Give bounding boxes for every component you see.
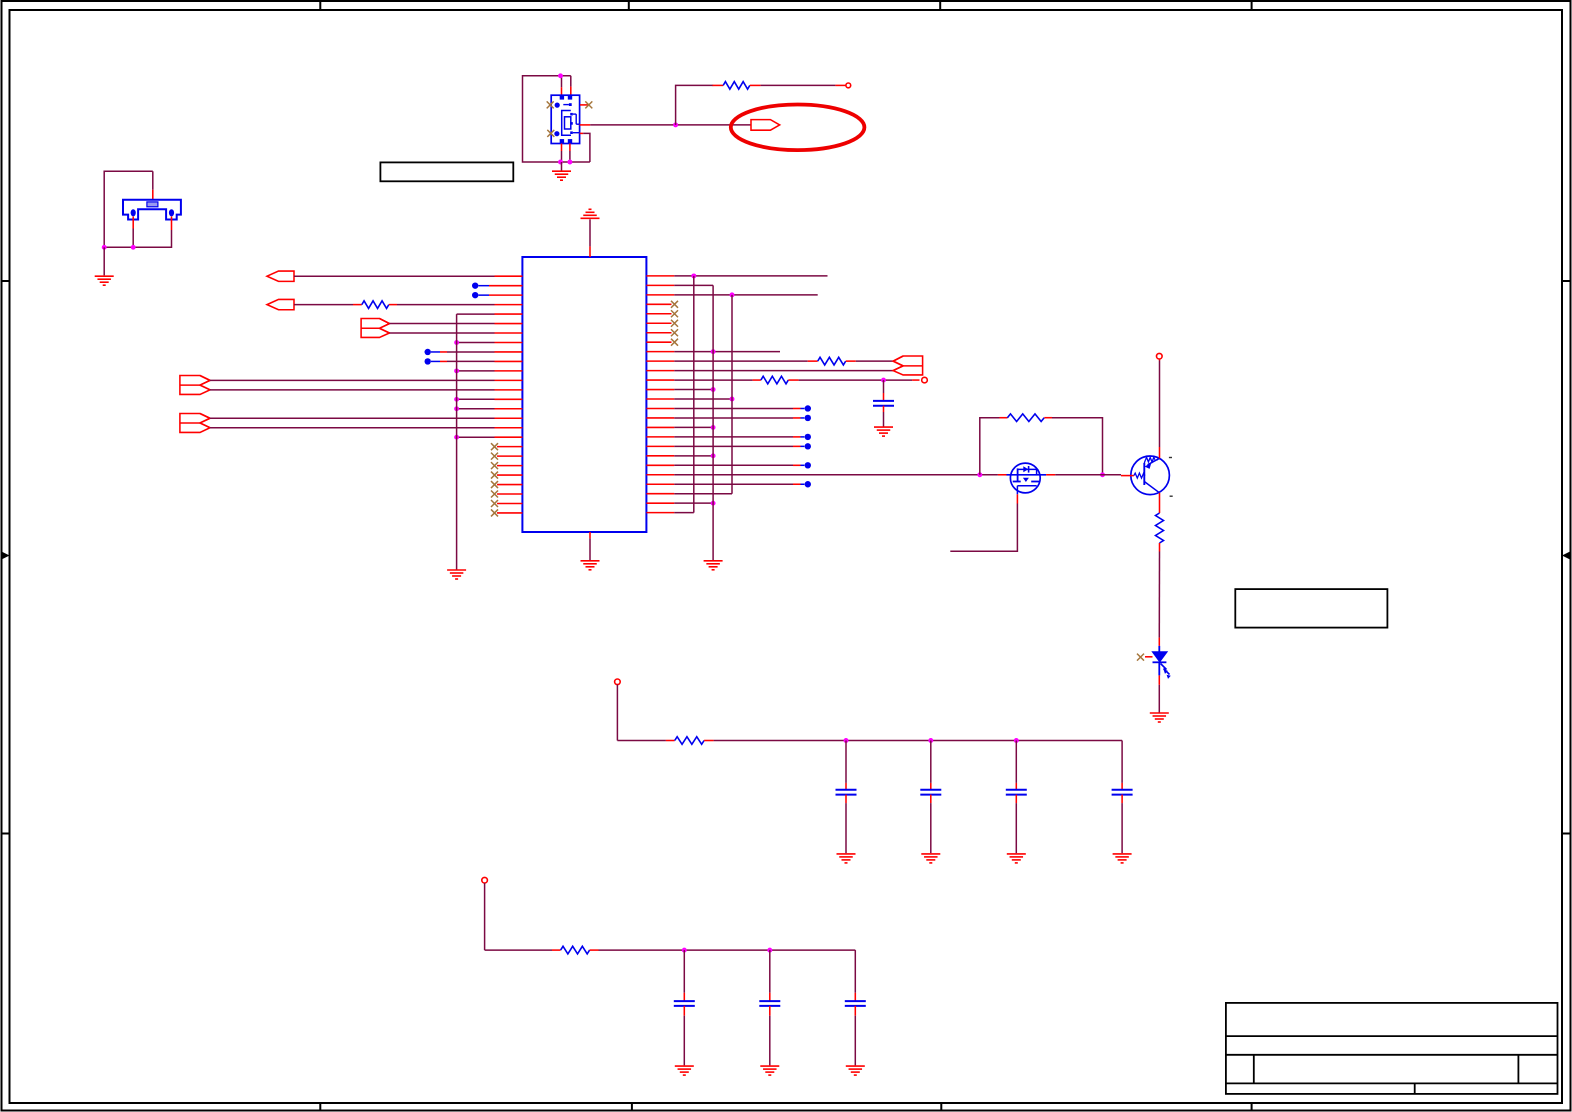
resistor R5 left stub — [999, 417, 1007, 419]
wire row4 to resistor — [294, 304, 362, 306]
oscillator Y1 — [551, 95, 580, 143]
junction Y1 bottom a — [558, 160, 563, 165]
wire Y1 pad1 bottom — [561, 144, 563, 163]
junction Y1 bottom b — [567, 160, 572, 165]
power ground above IC — [581, 209, 600, 218]
wire Y1 pad1 top — [561, 76, 563, 95]
wire cap C3 bottom — [930, 795, 932, 854]
right edge zone ticks — [1562, 281, 1571, 834]
terminal dot right 6 — [646, 481, 811, 487]
capacitor C7 — [759, 1001, 780, 1006]
wire rrow20 — [646, 455, 713, 457]
no-connect Y1 left pin2 — [547, 130, 554, 137]
wire R4 to terminal — [788, 379, 919, 381]
Y1 output pin wire — [580, 124, 751, 126]
ground C6 — [675, 1066, 694, 1075]
terminal circle Q2 collector — [1157, 353, 1163, 359]
wire cap C5 bottom — [1121, 795, 1123, 854]
wire rrow2 — [646, 284, 713, 286]
junction Q2 base node — [1100, 472, 1105, 477]
no-connect Y1 left pin1 — [547, 101, 554, 108]
junction bus row15 — [454, 406, 459, 411]
IC U1 bottom pin — [589, 532, 591, 561]
wire Y1 vdd loop — [523, 76, 590, 162]
wire cap C4 top — [1015, 741, 1017, 790]
resistor R6 — [1156, 513, 1164, 543]
wire row16 — [210, 417, 522, 419]
microphone MK1 — [123, 200, 181, 220]
junction Y1 top — [558, 73, 563, 78]
Y1 pin4 wire — [580, 133, 590, 162]
junction MK1 b — [131, 245, 136, 250]
wire rrow11 to port — [646, 370, 893, 372]
left edge zone ticks — [1, 281, 10, 834]
port P6 double right — [893, 356, 923, 375]
capacitor C4 — [1006, 790, 1027, 795]
bus3 vertical — [731, 295, 733, 494]
wire rrow3 — [646, 294, 817, 296]
wire MK1 pin3 — [104, 217, 171, 248]
wire rrow13 — [646, 389, 713, 391]
junction bus3 row14 — [730, 397, 735, 402]
IC U1 body — [522, 257, 646, 532]
wire row6 — [390, 323, 523, 325]
port P2 (row4) — [267, 299, 294, 309]
bus2 vertical — [712, 285, 714, 560]
wire rrow24 — [646, 493, 732, 495]
wire RC2 rail — [599, 949, 856, 951]
note box top — [380, 162, 513, 181]
wire R3 to port — [846, 360, 893, 362]
wire cap C6 bottom — [683, 1006, 685, 1066]
wire Q1 to Q2 — [1055, 474, 1121, 476]
wire row8 — [457, 341, 523, 343]
mosfet Q1 — [1007, 463, 1047, 494]
junction RC1 node 2 — [928, 738, 933, 743]
port P4 double (rows12-13) — [180, 376, 210, 395]
wire C1 to ground — [883, 406, 885, 427]
wire rrow26 — [646, 512, 693, 514]
wire row7 — [390, 332, 523, 334]
wire MK1 ground stem — [103, 247, 105, 275]
terminal circle RC2 — [482, 877, 488, 883]
title block — [1226, 1003, 1558, 1094]
wire row13 — [210, 389, 522, 391]
resistor R3 — [818, 357, 846, 365]
wire rrow1 — [646, 275, 827, 277]
wire row11 — [457, 370, 523, 372]
ground bus2 — [704, 561, 723, 570]
wire cap C8 bottom — [854, 1006, 856, 1066]
resistor R4 — [761, 376, 788, 384]
junction bus2 row9 — [711, 349, 716, 354]
terminal circle top — [846, 83, 851, 88]
wire Q1 source dangling — [950, 504, 1017, 552]
terminal dot row10 — [425, 358, 523, 364]
resistor R5 — [1007, 414, 1044, 422]
wire rrow17 — [646, 426, 713, 428]
junction bus1 top — [691, 273, 696, 278]
resistor R1 right stub — [750, 84, 761, 86]
junction bus2 row25 — [711, 501, 716, 506]
resistor R1 left stub — [713, 84, 724, 86]
ground C1 — [874, 427, 893, 436]
junction bus row11 — [454, 368, 459, 373]
terminal dot right 1 — [646, 405, 811, 411]
wire R1 to terminal — [761, 84, 846, 86]
transistor Q2 — [1121, 456, 1169, 495]
ground Y1 — [552, 171, 571, 180]
wire MK1 top loop — [104, 171, 153, 247]
ground MK1 — [95, 276, 114, 285]
wire RC1 rail — [714, 740, 1123, 742]
ground C5 — [1113, 854, 1132, 863]
terminal dot right 3 — [646, 434, 811, 440]
left edge center arrow — [1, 552, 10, 560]
highlight ellipse — [731, 105, 865, 151]
wire cap C5 top — [1121, 741, 1123, 790]
wire cap C7 top — [769, 950, 771, 1001]
terminal dot right 5 — [646, 462, 811, 468]
terminal dot row2 — [472, 282, 522, 288]
wire row18 — [457, 436, 523, 438]
terminal dot row3 — [472, 292, 522, 298]
note box right — [1235, 589, 1387, 628]
wire rrow14 — [646, 398, 732, 400]
Q1 drain stub right — [1046, 474, 1055, 476]
wire cap C6 top — [683, 950, 685, 1001]
ground C8 — [846, 1066, 865, 1075]
ground C3 — [921, 854, 940, 863]
junction RC1 node 3 — [1014, 738, 1019, 743]
wire rrow25 — [646, 502, 713, 504]
junction Q1 gate node — [977, 472, 982, 477]
junction bus row18 — [454, 435, 459, 440]
wire row1 left — [294, 275, 522, 277]
junction CLK node — [673, 122, 678, 127]
ground C7 — [760, 1066, 779, 1075]
junction bus2 row13 — [711, 387, 716, 392]
terminal dot row9 — [425, 349, 523, 355]
ground left bus — [447, 570, 466, 579]
no-connect LED pin — [1137, 654, 1153, 661]
wire RC1 input — [617, 685, 674, 741]
junction bus3 top — [730, 292, 735, 297]
wire cap C2 top — [845, 741, 847, 790]
wire C node down — [883, 380, 885, 401]
no-connect right pin group — [646, 301, 678, 346]
junction MK1 a — [102, 245, 107, 250]
capacitor C5 — [1112, 790, 1133, 795]
wire row14 — [457, 398, 523, 400]
ground C2 — [837, 854, 856, 863]
port CLK out — [751, 120, 780, 131]
wire rrow12 to resistor — [646, 379, 761, 381]
ground below IC — [581, 561, 600, 570]
wire Y1 pad2 top — [570, 76, 572, 95]
bottom edge zone ticks — [320, 1103, 1251, 1111]
wire row15 — [457, 408, 523, 410]
port P5 double (rows16-17) — [180, 414, 210, 433]
Q2 emitter top wire — [1159, 359, 1161, 459]
wire rrow22 long — [646, 474, 1006, 476]
port P1 (row1) — [267, 271, 294, 281]
wire RC2 input — [485, 883, 561, 950]
junction bus2 row20 — [711, 453, 716, 458]
LED D1 — [1152, 646, 1171, 679]
terminal circle right — [922, 377, 928, 383]
wire LED to ground — [1158, 675, 1160, 713]
wire CLK up — [676, 85, 714, 125]
junction bus row14 — [454, 397, 459, 402]
port P3 double (rows6-7) — [361, 319, 389, 338]
ground LED — [1150, 713, 1169, 722]
junction bus row8 — [454, 340, 459, 345]
wire cap C3 top — [930, 741, 932, 790]
resistor R1 — [723, 82, 750, 90]
wire rrow9 — [646, 351, 780, 353]
wire row5 bus corner — [457, 313, 523, 315]
wire row17 — [210, 427, 522, 429]
wire feedback left leg — [980, 418, 1008, 475]
wire R8 stub — [590, 949, 599, 951]
terminal dot right 2 — [646, 415, 811, 421]
wire row12 — [210, 379, 522, 381]
top edge zone ticks — [320, 1, 1251, 10]
junction RC2 node 2 — [767, 948, 772, 953]
ground C4 — [1007, 854, 1026, 863]
Y1 pin nc right stub — [580, 104, 588, 106]
wire cap C4 bottom — [1015, 795, 1017, 854]
junction RC1 node 1 — [844, 738, 849, 743]
wire cap C8 top — [854, 950, 856, 1001]
capacitor C8 — [845, 1001, 866, 1006]
wire cap C2 bottom — [845, 795, 847, 854]
wire R7 stub — [704, 740, 714, 742]
wire MK1 pin1 stub — [152, 171, 154, 200]
capacitor C3 — [920, 790, 941, 795]
wire R6 to LED — [1158, 543, 1160, 646]
wire cap C7 bottom — [769, 1006, 771, 1066]
resistor R7 — [675, 737, 704, 745]
Q2 collector bottom wire — [1159, 493, 1161, 513]
Q2 pin mark top — [1169, 457, 1172, 459]
capacitor C1 — [873, 401, 894, 406]
Q2 pin mark bottom — [1170, 495, 1173, 497]
Q1 source stub — [1016, 494, 1018, 503]
junction RC2 node 1 — [682, 948, 687, 953]
wire feedback right leg — [1044, 418, 1102, 475]
wire Y1 pad2 bottom — [569, 144, 571, 163]
left bus vertical — [456, 314, 458, 570]
resistor R8 — [561, 946, 590, 954]
wire Y1 ground stem — [561, 162, 563, 171]
capacitor C6 — [674, 1001, 695, 1006]
junction C node — [881, 378, 886, 383]
bus1 vertical — [693, 276, 695, 513]
right edge center arrow — [1562, 552, 1571, 560]
resistor R2 — [362, 301, 389, 309]
terminal dot right 4 — [646, 443, 811, 449]
junction bus2 row17 — [711, 425, 716, 430]
no-connect Y1 right pin — [585, 101, 592, 108]
terminal circle RC1 — [615, 679, 621, 685]
wire MK1 pin2 — [132, 217, 134, 248]
no-connect left pin group — [491, 443, 522, 516]
capacitor C2 — [836, 790, 857, 795]
IC U1 top pin — [589, 219, 591, 257]
wire resistor R2 to IC — [389, 304, 523, 306]
wire rrow10 to resistor — [646, 360, 817, 362]
